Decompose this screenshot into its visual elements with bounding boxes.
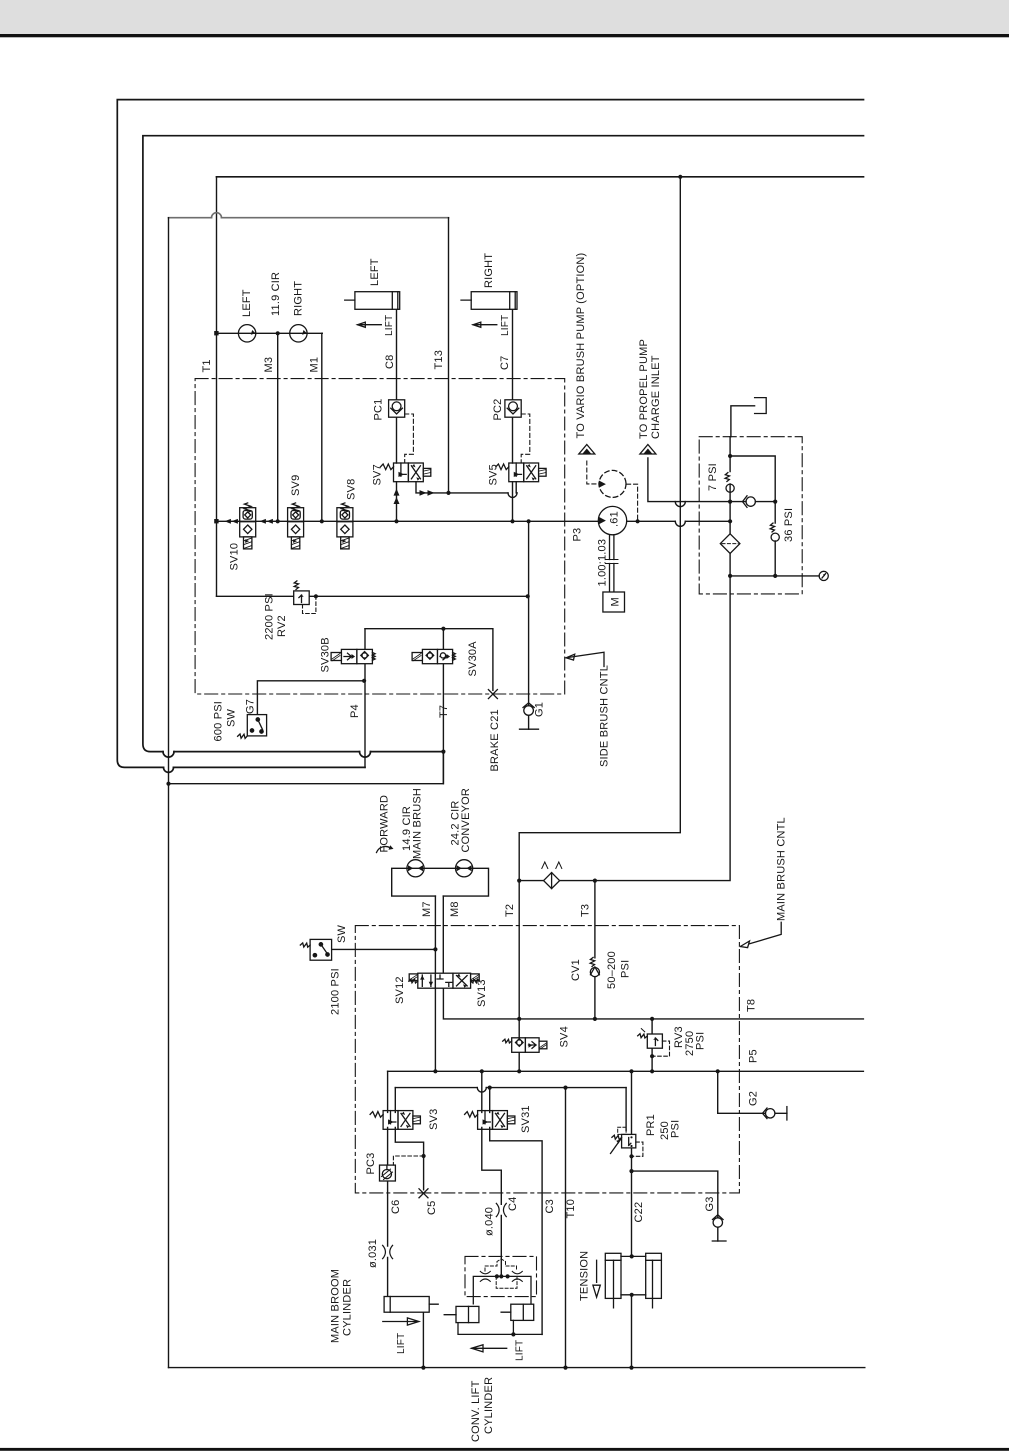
- svg-text:SV3: SV3: [428, 1109, 440, 1130]
- svg-text:SV5: SV5: [488, 464, 500, 485]
- wire hop P3 over x680: [675, 521, 685, 526]
- cylinder left side brush lift: [345, 292, 400, 310]
- wire SV31 feeds: [482, 1071, 490, 1112]
- svg-text:FORWARD: FORWARD: [379, 795, 391, 853]
- wire T1 vertical: [216, 177, 218, 597]
- svg-text:CV1: CV1: [570, 959, 582, 981]
- wire filter bottom: [730, 575, 819, 577]
- svg-text:PC1: PC1: [373, 399, 385, 421]
- forward arc arrow: [377, 845, 394, 852]
- svg-text:LEFT: LEFT: [241, 289, 253, 317]
- svg-text:G3: G3: [704, 1196, 716, 1211]
- wire hop tank link over C7: [508, 493, 517, 498]
- svg-text:C8: C8: [384, 355, 396, 369]
- relief 36psi: [770, 523, 779, 541]
- bottom gray band: [117, 100, 865, 1368]
- svg-text:SV9: SV9: [290, 475, 302, 496]
- svg-text:TO VARIO BRUSH PUMP (OPTIO: TO VARIO BRUSH PUMP (OPTION): [575, 253, 587, 439]
- wire P5 to SV3: [387, 1071, 389, 1112]
- arrows on P3 left of SV10: [225, 519, 238, 524]
- svg-text:SV12: SV12: [394, 976, 406, 1004]
- wire charge down loop x730 to T2: [519, 576, 730, 881]
- valve SV9: [288, 503, 304, 549]
- wire SV30 top link: [365, 629, 493, 691]
- check valve G3: [712, 1215, 726, 1241]
- cylinder right side brush lift: [461, 292, 517, 310]
- wire loop R3 top: [217, 176, 864, 178]
- svg-text:CONVEYOR: CONVEYOR: [460, 788, 472, 853]
- svg-text:G7: G7: [245, 699, 257, 714]
- wire loop R1 outer: [117, 100, 863, 768]
- wire side brush motor line: [217, 332, 323, 334]
- svg-text:MAIN BROOM: MAIN BROOM: [330, 1269, 342, 1343]
- vario pump dashed circle: [599, 470, 626, 497]
- svg-text:ø.040: ø.040: [484, 1207, 496, 1236]
- node dots: [678, 175, 682, 179]
- svg-text:SV7: SV7: [372, 464, 384, 485]
- svg-text:PC2: PC2: [492, 399, 504, 421]
- wire SV30B drop: [364, 629, 366, 768]
- svg-text:RIGHT: RIGHT: [293, 281, 305, 316]
- manifold box main brush: [355, 926, 739, 1193]
- svg-text:TENSION: TENSION: [579, 1251, 591, 1301]
- svg-text:C6: C6: [390, 1200, 402, 1214]
- svg-text:SW: SW: [226, 708, 238, 727]
- wire motor loop: [392, 868, 489, 896]
- lift arrow main broom: [383, 1318, 419, 1325]
- svg-text:C7: C7: [499, 356, 511, 370]
- svg-text:ø.031: ø.031: [367, 1239, 379, 1268]
- wire y1087.6 to SV3: [394, 1088, 396, 1113]
- check valve G1: [520, 703, 539, 729]
- svg-text:C22: C22: [633, 1202, 645, 1223]
- pressure switch 600psi: [238, 715, 267, 739]
- wire T2 vertical: [518, 833, 520, 1072]
- tension arrow: [593, 1260, 600, 1297]
- svg-text:P3: P3: [572, 528, 584, 542]
- svg-text:1.00:1.03: 1.00:1.03: [597, 539, 609, 587]
- wire SV30A drop: [442, 629, 444, 784]
- svg-text:BRAKE C21: BRAKE C21: [489, 709, 501, 771]
- wire main broom cyl to bottom: [422, 1312, 424, 1367]
- pilot dashes PC2-SV5: [521, 414, 530, 462]
- valve SV30B: [331, 649, 375, 663]
- pilot dash PC3: [393, 1156, 423, 1165]
- svg-text:2100 PSI: 2100 PSI: [330, 968, 342, 1015]
- relief valve RV2: [294, 581, 316, 614]
- manifold box side brush: [195, 379, 565, 694]
- motor M box: [603, 592, 625, 612]
- svg-text:MAIN BRUSH CNTL: MAIN BRUSH CNTL: [776, 817, 788, 921]
- wire T10: [565, 1088, 567, 1368]
- wire T8 line: [443, 988, 863, 1019]
- pilot dash vario: [587, 461, 599, 484]
- reducing valve PR1: [611, 1127, 643, 1156]
- wire SW2100 line: [332, 948, 436, 950]
- wire hop R2 over x365: [360, 752, 371, 758]
- wire P3 main line: [217, 520, 731, 522]
- valve SV31: [465, 1111, 515, 1130]
- wire RV3 vertical: [651, 1019, 653, 1071]
- check valve PC1: [389, 400, 405, 417]
- wire x680 long vertical: [519, 177, 680, 833]
- svg-text:SV10: SV10: [229, 543, 241, 571]
- wire hop charge over x680: [675, 502, 685, 507]
- cooler diamond on charge return: [542, 862, 562, 889]
- svg-text:LIFT: LIFT: [515, 1340, 526, 1361]
- tension cylinders: [605, 1253, 661, 1308]
- svg-text:T8: T8: [746, 999, 758, 1012]
- relief valve RV3: [638, 1029, 670, 1057]
- top black rule: [0, 34, 1009, 37]
- check valve charge: [743, 496, 756, 508]
- valve SV3: [370, 1111, 420, 1130]
- svg-text:C4: C4: [507, 1197, 519, 1211]
- svg-text:SIDE BRUSH CNTL: SIDE BRUSH CNTL: [599, 665, 611, 767]
- svg-text:SV4: SV4: [559, 1026, 571, 1047]
- svg-text:SW: SW: [336, 924, 348, 943]
- lift arrow left cyl: [358, 322, 382, 327]
- wire SV31 to C4: [482, 1127, 502, 1275]
- cylinder main broom: [384, 1297, 438, 1313]
- wire hop R1 over x168.5: [164, 767, 174, 772]
- wire 36psi column: [730, 456, 775, 576]
- svg-text:CHARGE INLET: CHARGE INLET: [650, 355, 662, 439]
- arrows on P3 right of SV10: [260, 519, 273, 524]
- wire propel charge line: [648, 458, 730, 502]
- wire bottom long line: [169, 1367, 865, 1369]
- wire y1087.6 down to PR1 pilot: [625, 1088, 627, 1131]
- svg-text:SV30B: SV30B: [320, 637, 332, 672]
- side brush leader arrow: [566, 652, 604, 666]
- X plug C21: [488, 690, 497, 699]
- top gray band: [0, 0, 1009, 34]
- wire G3 tail: [717, 1228, 719, 1242]
- cylinder conveyor right: [501, 1304, 534, 1334]
- X plug C5: [419, 1189, 428, 1198]
- svg-text:PC3: PC3: [365, 1153, 377, 1175]
- main brush cntl leader arrow: [740, 922, 781, 947]
- wire SV7 SV5 tank link: [416, 482, 517, 493]
- motor M3 side brush: [238, 325, 255, 342]
- motor conveyor: [456, 860, 473, 877]
- svg-text:M3: M3: [263, 357, 275, 373]
- wire G7 branch: [257, 681, 364, 715]
- wire C8: [396, 309, 398, 521]
- valve SV30A: [412, 649, 455, 663]
- lift arrow right cyl: [473, 322, 497, 327]
- wire RV2 G1 vertical: [528, 521, 530, 705]
- cylinder conveyor left: [444, 1306, 542, 1334]
- wire G1 tail: [528, 716, 530, 730]
- svg-text:36 PSI: 36 PSI: [783, 508, 795, 542]
- svg-text:600 PSI: 600 PSI: [213, 701, 225, 742]
- wire C6: [387, 1127, 389, 1296]
- svg-text:CYLINDER: CYLINDER: [342, 1279, 354, 1336]
- svg-text:TO PROPEL PUMP: TO PROPEL PUMP: [638, 339, 650, 439]
- svg-text:G2: G2: [748, 1091, 760, 1106]
- arrows right on tank link: [420, 490, 435, 496]
- svg-text:PR1: PR1: [645, 1114, 657, 1136]
- wire loop R2: [143, 136, 864, 752]
- valve SV12 SV13: [409, 973, 480, 988]
- wire hop R4 over T1: [212, 213, 222, 218]
- wire check link: [730, 501, 775, 503]
- svg-text:SV31: SV31: [520, 1105, 532, 1133]
- wire left main vertical x168.5: [168, 218, 170, 1368]
- svg-text:C5: C5: [426, 1201, 438, 1215]
- wire M7: [434, 896, 436, 1071]
- wire PR1 main vertical: [631, 1071, 633, 1256]
- relief 7psi: [725, 472, 734, 492]
- svg-text:P5: P5: [748, 1049, 760, 1063]
- wire SV31 to C3: [490, 1127, 542, 1334]
- svg-text:T2: T2: [504, 904, 516, 917]
- wire PR1 out right: [632, 1171, 718, 1217]
- pilot dashes PC1-SV7: [405, 414, 414, 462]
- svg-text:LIFT: LIFT: [396, 1333, 407, 1354]
- svg-text:LEFT: LEFT: [369, 258, 381, 286]
- svg-text:G1: G1: [534, 702, 546, 717]
- wire C7: [512, 309, 514, 521]
- wire charge top tank: [731, 406, 755, 437]
- svg-text:RV2: RV2: [276, 615, 288, 637]
- pilot dash pump right: [627, 484, 638, 521]
- svg-text:.61: .61: [609, 511, 621, 527]
- bottom black rule: [0, 1448, 1009, 1451]
- svg-text:T1: T1: [201, 359, 213, 372]
- wire P5 line: [388, 1070, 864, 1072]
- valve SV4: [503, 1038, 547, 1053]
- reservoir top right: [755, 398, 767, 414]
- svg-text:SV30A: SV30A: [467, 641, 479, 677]
- filter diamond: [720, 534, 740, 554]
- svg-text:50–200: 50–200: [606, 951, 618, 989]
- motor M1 side brush: [290, 325, 307, 342]
- svg-text:C3: C3: [544, 1199, 556, 1213]
- svg-text:PSI: PSI: [695, 1032, 707, 1050]
- svg-text:MAIN BRUSH: MAIN BRUSH: [411, 788, 423, 859]
- wire lower work line y1087.6: [395, 1087, 626, 1089]
- motor main brush: [407, 860, 424, 877]
- wire T13 vertical: [448, 218, 450, 493]
- svg-text:M: M: [610, 597, 622, 606]
- valve SV10: [240, 503, 256, 549]
- valve SV7: [381, 463, 431, 482]
- wire y783.7 branch: [169, 752, 444, 784]
- wire C22 lower: [631, 1295, 633, 1368]
- wire T3 vertical: [594, 881, 596, 1019]
- svg-text:11.9 CIR: 11.9 CIR: [270, 272, 282, 316]
- svg-text:M7: M7: [421, 901, 433, 917]
- svg-text:SV13: SV13: [476, 979, 488, 1007]
- svg-text:PSI: PSI: [670, 1120, 682, 1138]
- check valve PC2: [505, 400, 521, 417]
- svg-text:M1: M1: [309, 357, 321, 373]
- svg-text:M8: M8: [449, 901, 461, 917]
- svg-text:7 PSI: 7 PSI: [707, 463, 719, 491]
- svg-text:CONV. LIFT: CONV. LIFT: [470, 1380, 482, 1442]
- svg-text:T7: T7: [438, 705, 450, 718]
- check valve G2: [763, 1107, 787, 1120]
- orifice o040: [496, 1203, 506, 1216]
- wire M1 corner: [321, 332, 323, 334]
- wire M8: [442, 896, 444, 988]
- conveyor orifice assembly: [473, 1259, 531, 1304]
- wire SV3 work to C5: [395, 1127, 423, 1189]
- gauge: [819, 571, 828, 580]
- filter box: [699, 437, 802, 594]
- square ports: [214, 331, 218, 335]
- svg-text:LIFT: LIFT: [384, 315, 395, 336]
- triangle to propel: [640, 445, 656, 455]
- svg-text:T10: T10: [565, 1199, 577, 1219]
- wire RV2 line to G1: [217, 595, 528, 597]
- svg-text:P4: P4: [349, 704, 361, 718]
- valve SV5: [496, 463, 546, 482]
- pressure switch 2100psi: [300, 939, 331, 960]
- wire hop y1087.6 over x481.8: [477, 1088, 486, 1093]
- svg-text:T13: T13: [433, 350, 445, 370]
- wire hop R2 over x168.5: [163, 752, 174, 758]
- wire M3 tap: [277, 333, 279, 521]
- triangle to vario: [579, 445, 595, 455]
- wire filter column: [729, 437, 731, 576]
- wire loop R4 top gray: [169, 217, 449, 219]
- arrows up on C8: [394, 489, 400, 504]
- svg-text:2200 PSI: 2200 PSI: [264, 593, 276, 640]
- check valve CV1: [590, 957, 599, 976]
- svg-text:LIFT: LIFT: [500, 315, 511, 336]
- conveyor orifice box: [465, 1256, 537, 1296]
- svg-text:CYLINDER: CYLINDER: [483, 1377, 495, 1434]
- wire G2 branch: [718, 1071, 787, 1113]
- wire M1 tap: [321, 333, 323, 521]
- svg-text:PSI: PSI: [620, 960, 632, 978]
- pump shaft: [606, 535, 618, 592]
- svg-text:RIGHT: RIGHT: [483, 253, 495, 288]
- svg-text:SV8: SV8: [346, 479, 358, 500]
- svg-text:T3: T3: [580, 904, 592, 917]
- orifice o031: [383, 1245, 393, 1258]
- lift arrow conveyor: [472, 1345, 507, 1352]
- check valve PC3: [380, 1165, 396, 1181]
- valve SV8: [337, 503, 353, 549]
- pump circle: [598, 506, 626, 534]
